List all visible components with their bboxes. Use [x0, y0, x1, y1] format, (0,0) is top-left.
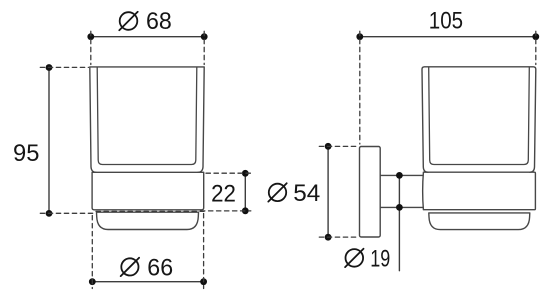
dimension 95 line — [48, 68, 50, 214]
holder ring side view — [423, 172, 536, 210]
label Ø66 diameter symbol — [121, 258, 139, 276]
label Ø54 diameter symbol — [268, 183, 286, 201]
dimension Ø19 dots on arm — [396, 172, 403, 211]
svg-text:19: 19 — [370, 246, 390, 273]
dimension Ø68 end dots — [87, 33, 207, 40]
svg-text:54: 54 — [293, 180, 320, 207]
dimension Ø66 line — [92, 281, 203, 283]
glass inner wall side view — [429, 67, 530, 164]
dimension 22 end dots — [242, 170, 249, 214]
glass bottom part front view — [97, 212, 199, 229]
svg-text:66: 66 — [147, 254, 173, 281]
label Ø19 diameter symbol — [345, 249, 363, 267]
glass body outline side view — [422, 67, 536, 172]
dimension Ø68 line — [91, 36, 204, 38]
wall mounting plate side view — [360, 147, 381, 238]
holder ring front view — [92, 172, 204, 210]
svg-text:95: 95 — [13, 140, 39, 167]
dimension 105 extension dashed lines — [360, 31, 536, 144]
dimension 22 line — [244, 173, 246, 211]
dimension 105 line — [360, 36, 536, 38]
holder arm side view — [380, 175, 423, 207]
dimension Ø68 extension dashed lines — [91, 31, 204, 64]
dimension 95 extension dashed lines — [40, 67, 204, 213]
label Ø68 diameter symbol — [119, 12, 137, 30]
glass inner wall front view — [97, 68, 197, 165]
svg-text:105: 105 — [429, 7, 463, 34]
dimension Ø66 extension dashed lines — [92, 214, 203, 289]
dimension Ø54 extension dashed lines — [319, 146, 357, 237]
glass body outline front view — [90, 67, 204, 172]
glass bottom part side view — [429, 213, 530, 230]
svg-text:68: 68 — [146, 8, 172, 35]
dimension Ø54 line — [327, 146, 329, 237]
dimension Ø54 end dots — [325, 143, 332, 241]
dimension Ø19 leader line — [398, 175, 400, 270]
dimension Ø66 end dots — [89, 278, 207, 285]
dimension 105 end dots — [356, 33, 539, 40]
svg-text:22: 22 — [211, 180, 236, 207]
dimension 95 end dots — [46, 64, 53, 217]
dimension 22 extension dashed lines — [201, 173, 251, 211]
